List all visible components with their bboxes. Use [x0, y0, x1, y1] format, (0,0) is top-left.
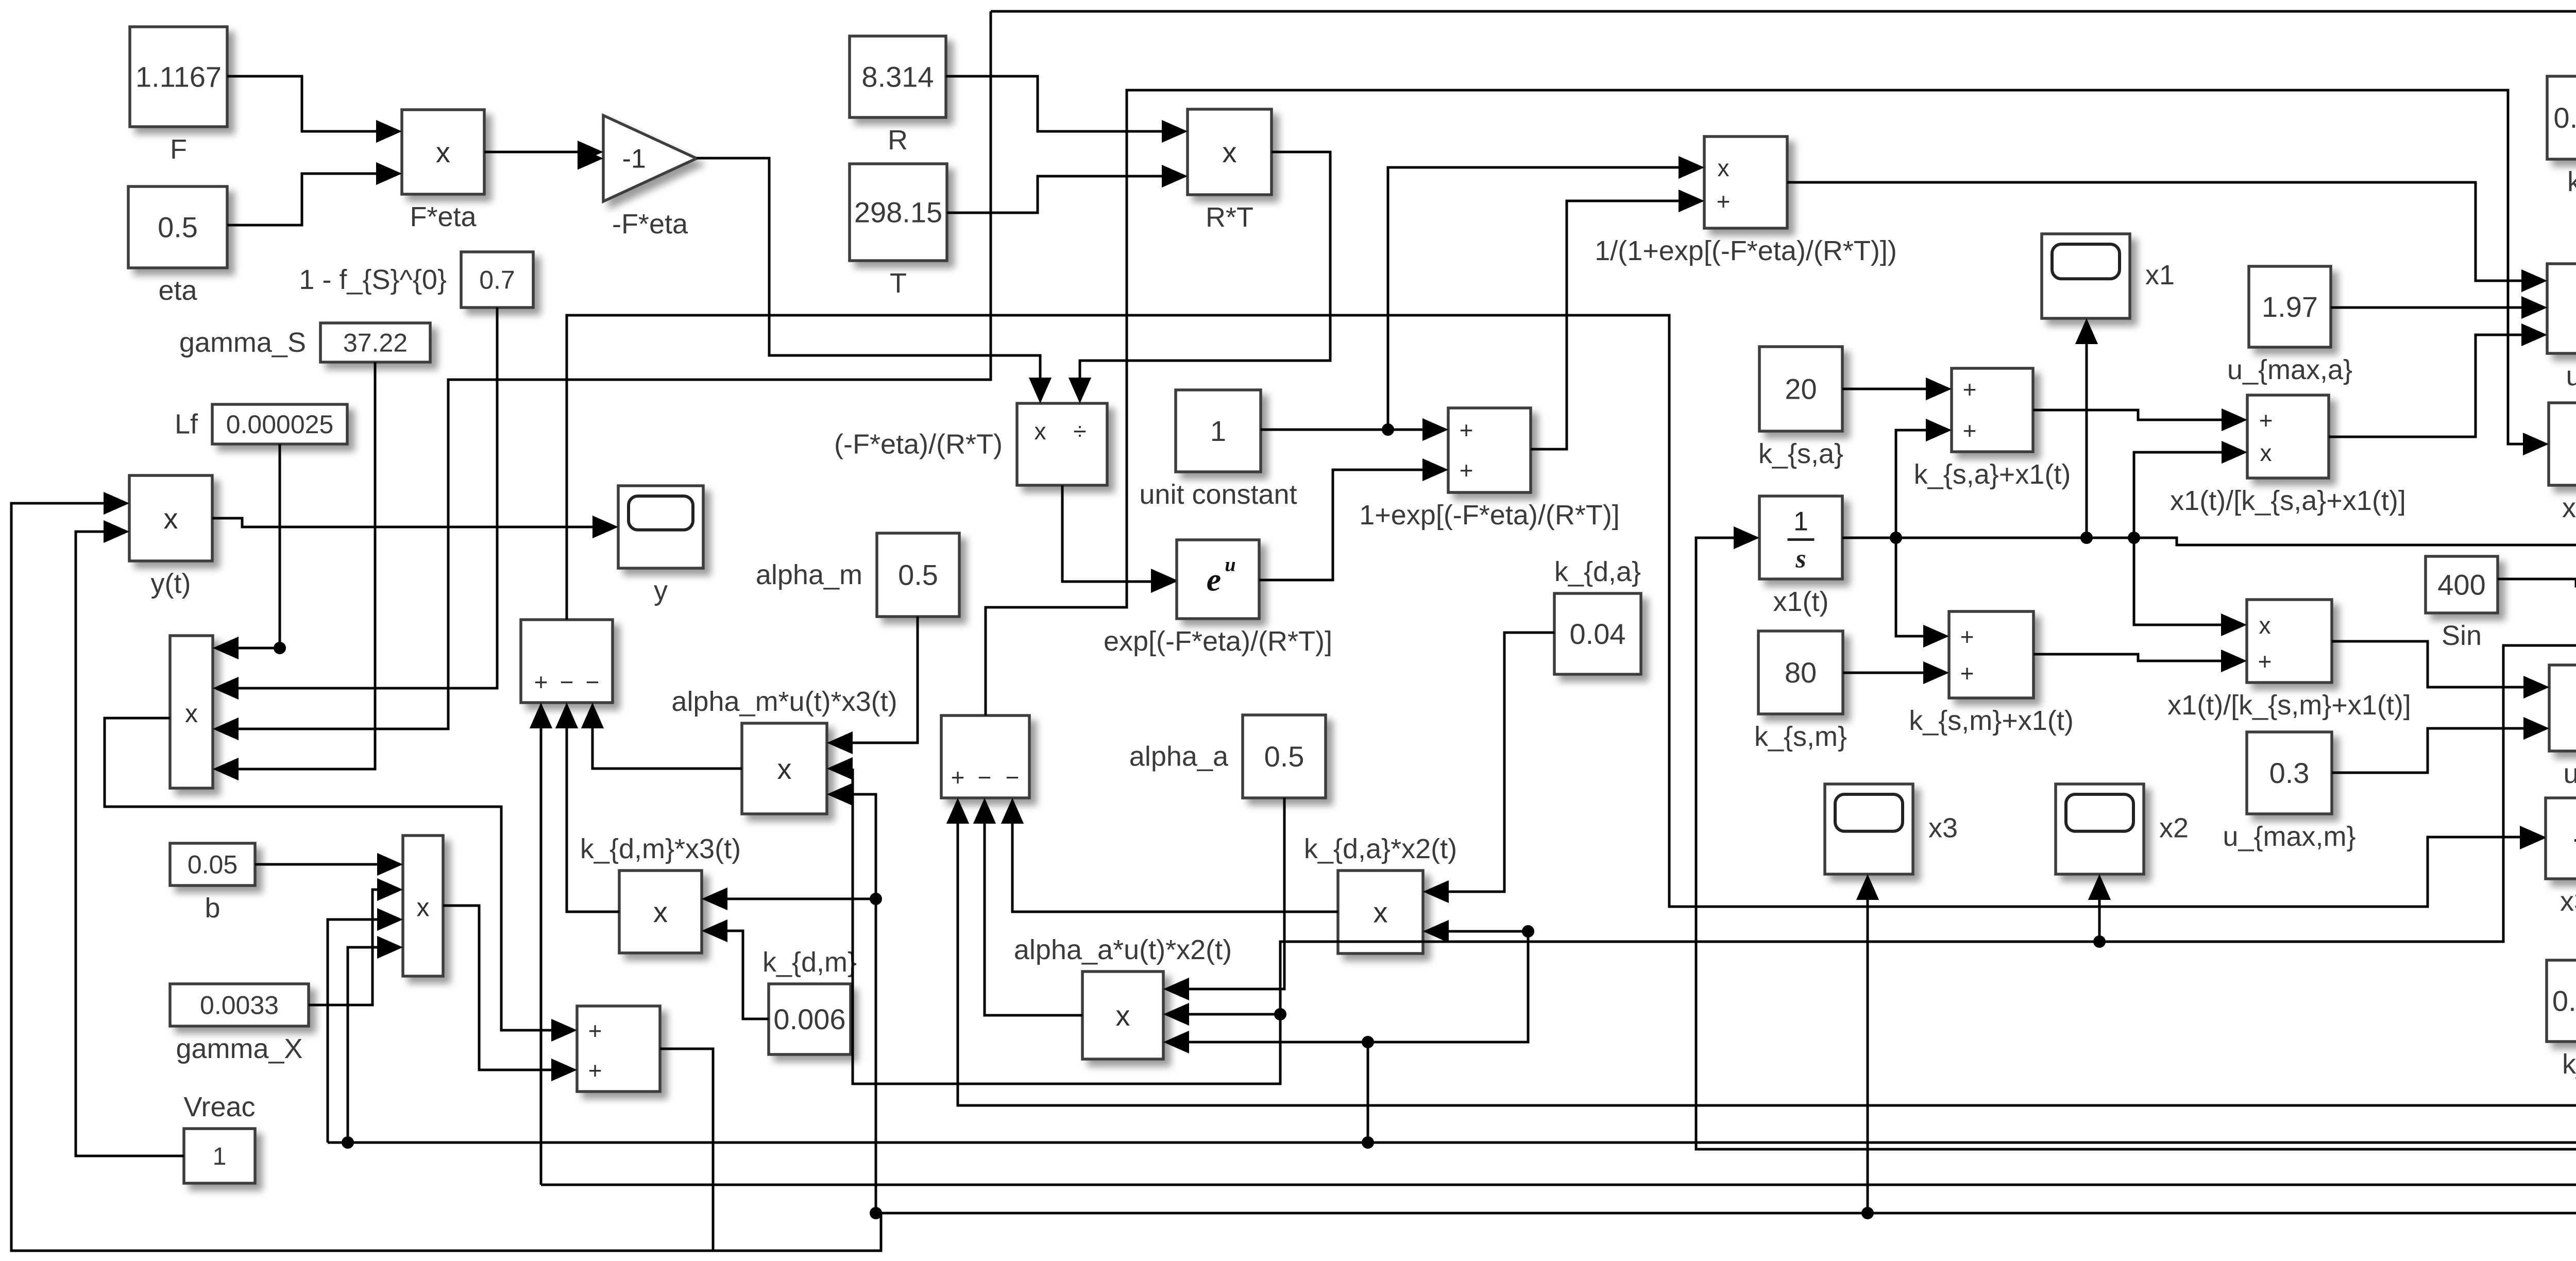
- svg-text:x: x: [1035, 418, 1046, 445]
- wire k_{s,a}+x1 sum to fraction: [2033, 408, 2247, 431]
- wire k_{d,m} 0.006 to product input 2: [702, 919, 769, 1019]
- scope x2: [2056, 784, 2189, 900]
- wire k_{s,a} to sum input 1: [1842, 378, 1952, 400]
- wire F*eta to gain -1: [484, 141, 603, 163]
- wire eta to F*eta input 2: [227, 162, 402, 225]
- constant u_{max,m} = 0.3: [2223, 732, 2355, 852]
- product 1/(1+exp[(-F*eta)/(R*T)]): [1595, 137, 1897, 266]
- svg-text:x: x: [1374, 896, 1388, 929]
- wire F to F*eta input 1: [227, 76, 402, 143]
- wire x1 branch to scope x1: [2075, 318, 2098, 538]
- divide x1(t)/[k_{s,m}+x1(t)]: [2167, 600, 2411, 721]
- wire tall product b output to gamma sum input 2: [443, 906, 577, 1081]
- product R*T: [1162, 109, 1272, 233]
- wire alpha_a to product input 1: [1163, 798, 1284, 1000]
- gain -1 (-F*eta): [578, 115, 697, 240]
- svg-text:1/(1+exp[(-F*eta)/(R*T)]): 1/(1+exp[(-F*eta)/(R*T)]): [1595, 235, 1897, 266]
- svg-text:x: x: [2260, 439, 2272, 466]
- wire e^u to 1+exp sum input 2: [1259, 458, 1448, 580]
- svg-text:-F*eta: -F*eta: [612, 209, 688, 240]
- svg-text:37.22: 37.22: [343, 329, 408, 357]
- svg-text:80: 80: [1785, 656, 1817, 689]
- wire b to tall product input 1: [255, 853, 403, 876]
- svg-text:x: x: [1718, 155, 1730, 181]
- constant 1 (unit constant): [1139, 390, 1297, 510]
- svg-text:Sin: Sin: [2442, 620, 2482, 651]
- wire k_{s,m}+x1 sum to fraction: [2033, 650, 2247, 672]
- svg-text:F: F: [170, 134, 187, 165]
- constant k_{d,m} = 0.006: [762, 947, 857, 1054]
- product u_m: [2523, 665, 2576, 789]
- svg-text:+: +: [1960, 660, 1974, 687]
- svg-text:eta: eta: [158, 275, 197, 306]
- svg-text:k_{d,a}*x2(t): k_{d,a}*x2(t): [1304, 833, 1457, 864]
- product alpha_m*u(t)*x3(t): [671, 686, 897, 814]
- constant gamma_S = 37.22: [179, 323, 430, 362]
- svg-text:y(t): y(t): [151, 568, 191, 599]
- svg-text:F*eta: F*eta: [410, 201, 477, 232]
- svg-text:x3(t): x3(t): [2560, 886, 2576, 917]
- svg-text:+: +: [1460, 417, 1473, 444]
- wire u_a*x2 bus to dx2 sum input 1: [946, 798, 2576, 1105]
- wire dS sum output to x3 integrator: [567, 315, 2546, 907]
- svg-text:−: −: [1006, 764, 1020, 791]
- wire k_{d,a}*x2 output to dx2 sum input 3: [1001, 798, 1338, 912]
- svg-text:1: 1: [213, 1143, 227, 1170]
- scope y: [592, 486, 703, 606]
- svg-text:1.97: 1.97: [2262, 291, 2318, 323]
- constant alpha_a = 0.5: [1129, 715, 1326, 798]
- svg-text:400: 400: [2437, 569, 2485, 601]
- wire segment bottom bus east: [713, 1213, 881, 1251]
- wire x1 branch to fraction a x input: [2134, 441, 2247, 538]
- svg-text:+: +: [588, 1017, 602, 1044]
- svg-text:s: s: [1795, 544, 1806, 574]
- svg-text:x: x: [436, 136, 450, 168]
- constant Lf = 0.000025: [175, 404, 347, 444]
- svg-text:Vreac: Vreac: [183, 1092, 255, 1122]
- svg-text:k_{d,a}: k_{d,a}: [1554, 556, 1641, 587]
- product k_{d,a}*x2(t): [1304, 833, 1457, 953]
- wire x2 branch to k_{d,a} product input 2: [1368, 920, 1534, 1042]
- constant k_{d,a} = 0.04: [1554, 556, 1641, 674]
- constant k_a = 0.667: [2547, 76, 2576, 197]
- wire x1 fraction to u_a input 3: [2329, 323, 2547, 437]
- svg-text:20: 20: [1785, 373, 1817, 405]
- wire x2 branch to alpha_a product input 3: [1163, 1031, 1374, 1143]
- svg-text:0.000025: 0.000025: [226, 410, 334, 439]
- wire gamma sum output to y(t) input 1: [11, 492, 713, 1251]
- svg-text:1 - f_{S}^{0}: 1 - f_{S}^{0}: [299, 264, 447, 295]
- wire x3 branch to k_{d,m} product input 1: [702, 888, 882, 1213]
- constant Sin = 400: [2426, 556, 2498, 651]
- wire Vreac to y(t) input 2: [76, 520, 184, 1156]
- exp block e^u: [1104, 540, 1332, 657]
- svg-text:u_{max,a}: u_{max,a}: [2227, 354, 2352, 385]
- svg-text:+: +: [1960, 623, 1974, 650]
- svg-text:0.3: 0.3: [2269, 757, 2310, 789]
- svg-text:x1(t): x1(t): [1773, 586, 1829, 617]
- constant eta = 0.5: [128, 186, 227, 306]
- wire Sin 400 to minus sum input 2: [2498, 575, 2576, 598]
- wire top bus west to tall product input 3: [213, 11, 991, 740]
- svg-text:x: x: [185, 699, 198, 728]
- svg-text:−: −: [978, 764, 992, 791]
- wire u_{max,m} to u_m input 2: [2332, 717, 2549, 773]
- wire x1 branch to k_{s,m} sum input 1: [1896, 538, 1949, 647]
- svg-text:+: +: [588, 1057, 602, 1084]
- wire gamma_S to tall product input 4: [213, 362, 375, 780]
- sum 1+exp[(-F*eta)/(R*T)]: [1359, 408, 1620, 531]
- svg-text:u_a: u_a: [2566, 361, 2576, 391]
- wire alpha_a*u*x2 output to dx2 sum input 2: [973, 798, 1082, 1015]
- svg-text:+: +: [1963, 417, 1977, 444]
- wire T to R*T input 2: [947, 165, 1188, 213]
- svg-text:x: x: [653, 896, 668, 928]
- constant k_{s,m} = 80: [1754, 631, 1847, 752]
- product F*eta: [376, 110, 484, 232]
- constant b = 0.05: [170, 843, 255, 924]
- svg-text:1.1167: 1.1167: [135, 61, 222, 93]
- wire Lf to tall product input 1: [213, 444, 286, 659]
- svg-text:0.006: 0.006: [773, 1003, 845, 1035]
- wire node unit constant branch to numerator x input: [1388, 156, 1704, 430]
- svg-text:−: −: [586, 669, 600, 695]
- constant k_m = 0.667: [2547, 960, 2576, 1080]
- wire x2 branch to tall product b input 3: [328, 908, 403, 1143]
- svg-text:÷: ÷: [1073, 418, 1086, 445]
- scope x1: [2042, 234, 2175, 344]
- svg-text:1: 1: [1793, 507, 1808, 537]
- wire top feedback bus: [991, 11, 2576, 891]
- svg-text:+: +: [951, 764, 965, 791]
- tall product (b row): [377, 836, 443, 976]
- svg-text:8.314: 8.314: [861, 61, 934, 93]
- svg-text:k_a: k_a: [2567, 166, 2576, 197]
- svg-text:u_m: u_m: [2563, 758, 2576, 789]
- svg-text:x3: x3: [1928, 813, 1958, 844]
- svg-text:k_m: k_m: [2562, 1049, 2576, 1080]
- svg-text:+: +: [1460, 457, 1473, 484]
- wire u(t) branch to alpha_m product input 2: [827, 757, 1280, 1084]
- svg-text:alpha_m: alpha_m: [756, 559, 862, 590]
- svg-text:0.7: 0.7: [479, 266, 515, 295]
- wire u_{max,a} to u_a input 2: [2331, 296, 2547, 319]
- svg-text:alpha_m*u(t)*x3(t): alpha_m*u(t)*x3(t): [671, 686, 897, 717]
- svg-text:x: x: [777, 753, 792, 785]
- wire divide output to e^u input: [1062, 485, 1177, 593]
- wire k_{d,a} 0.04 to product input 1: [1423, 633, 1554, 903]
- sum + - - (dS sum): [521, 620, 613, 728]
- wire 0.7 to tall product input 2: [213, 308, 497, 700]
- svg-text:u: u: [1225, 554, 1235, 576]
- integrator x1(t): [1734, 496, 1842, 617]
- svg-text:R*T: R*T: [1206, 202, 1253, 233]
- wire 1+exp sum to divide + input: [1531, 190, 1704, 449]
- svg-text:0.04: 0.04: [1570, 618, 1626, 650]
- svg-text:x: x: [1223, 136, 1237, 168]
- svg-text:k_{d,m}*x3(t): k_{d,m}*x3(t): [580, 833, 741, 864]
- constant F = 1.1167: [130, 27, 227, 165]
- wire 1/(1+exp) to u_a input 1: [1787, 182, 2547, 292]
- wire x3 bus west: [870, 1207, 2576, 1219]
- integrator x3(t): [2520, 798, 2576, 917]
- svg-text:k_{s,a}: k_{s,a}: [1758, 438, 1843, 469]
- svg-text:k_{s,m}: k_{s,m}: [1754, 721, 1847, 752]
- constant R = 8.314: [850, 36, 946, 156]
- wire u(t) branch to scope x2: [2088, 874, 2111, 942]
- svg-text:-1: -1: [622, 144, 646, 174]
- wire k_{s,m} to sum input 2: [1843, 661, 1949, 684]
- wire -F*eta to divide x input: [697, 158, 1052, 403]
- divide (-F*eta)/(R*T): [834, 378, 1107, 485]
- wire R*T to divide ÷ input: [1069, 152, 1330, 403]
- svg-text:gamma_S: gamma_S: [179, 327, 306, 358]
- constant gamma_X = 0.0033: [170, 984, 309, 1064]
- wire unit constant to 1+exp sum input 1: [1261, 418, 1448, 441]
- wire x1(t) output line: [1842, 532, 2140, 544]
- wire x2 feedback bus west: [328, 1136, 2576, 1149]
- constant k_{s,a} = 20: [1758, 347, 1843, 469]
- svg-text:+: +: [534, 669, 548, 695]
- svg-text:0.5: 0.5: [898, 559, 938, 591]
- constant T = 298.15: [850, 164, 947, 299]
- svg-text:0.667: 0.667: [2553, 101, 2576, 134]
- wire x1 branch to fraction m x input: [2134, 538, 2247, 636]
- wire y(t) to scope y: [212, 516, 618, 538]
- svg-text:1: 1: [1210, 415, 1226, 447]
- svg-text:0.5: 0.5: [1264, 740, 1304, 773]
- sum + + (gamma row): [551, 1006, 660, 1092]
- sum + - - (dx2 sum): [941, 715, 1029, 824]
- svg-text:x2(t): x2(t): [2562, 492, 2576, 523]
- svg-text:0.5: 0.5: [158, 211, 198, 244]
- svg-text:−: −: [560, 669, 574, 695]
- wire fraction m to u_m input 1: [2332, 641, 2549, 698]
- svg-text:u_{max,m}: u_{max,m}: [2223, 821, 2355, 852]
- svg-text:+: +: [2259, 407, 2273, 434]
- product y(t): [104, 475, 212, 599]
- svg-text:x: x: [164, 502, 178, 535]
- svg-text:alpha_a*u(t)*x2(t): alpha_a*u(t)*x2(t): [1014, 934, 1232, 965]
- wire x1 branch to Sin minus sum input: [2134, 534, 2576, 556]
- svg-text:+: +: [1963, 376, 1977, 403]
- wire gamma_X to tall product input 2: [309, 878, 403, 1005]
- svg-text:x: x: [2259, 612, 2271, 639]
- svg-text:Lf: Lf: [175, 409, 198, 440]
- svg-text:x: x: [417, 893, 430, 922]
- wire x3 branch to alpha_m product input 3: [827, 783, 876, 899]
- wire bus branch to tall product b input 4: [342, 936, 403, 1149]
- wire x3 branch to scope x3: [1856, 874, 1879, 1213]
- wire k_{d,m}*x3 output to dS sum input 2: [555, 703, 619, 912]
- svg-text:alpha_a: alpha_a: [1129, 741, 1229, 772]
- svg-text:298.15: 298.15: [854, 196, 942, 229]
- wire final sum output to x1 integrator: [1696, 526, 2576, 1149]
- svg-text:x1(t)/[k_{s,m}+x1(t)]: x1(t)/[k_{s,m}+x1(t)]: [2167, 690, 2411, 721]
- svg-text:x1: x1: [2145, 260, 2175, 291]
- svg-text:x2: x2: [2159, 813, 2189, 844]
- svg-text:+: +: [1717, 188, 1731, 215]
- svg-text:k_{d,m}: k_{d,m}: [762, 947, 857, 978]
- product k_{d,m}*x3(t): [580, 833, 741, 953]
- svg-text:+: +: [2258, 648, 2272, 675]
- svg-text:x: x: [1116, 999, 1130, 1032]
- integrator x2(t): [2523, 403, 2576, 523]
- wire u(t) feedback down and west: [1163, 387, 2576, 1026]
- svg-text:0.0033: 0.0033: [200, 991, 279, 1020]
- constant alpha_m = 0.5: [756, 533, 959, 617]
- svg-text:R: R: [888, 125, 908, 156]
- scope x3: [1825, 784, 1958, 900]
- svg-text:x1(t)/[k_{s,a}+x1(t)]: x1(t)/[k_{s,a}+x1(t)]: [2170, 485, 2406, 516]
- wire alpha_m to product input 1: [827, 617, 918, 754]
- tall product (y row): [170, 636, 239, 788]
- constant 0.7 (1 - f_{S}^{0}): [299, 252, 533, 308]
- svg-text:0.667: 0.667: [2552, 985, 2576, 1017]
- product u_a: [2521, 264, 2576, 391]
- wire alpha_m*u*x3 output to dS sum input 3: [581, 703, 742, 769]
- svg-text:b: b: [205, 893, 220, 924]
- svg-text:T: T: [890, 268, 907, 299]
- wire bus branch to dS sum input 1: [530, 703, 552, 1185]
- wire x1 branch to k_{s,a} sum input 2: [1896, 419, 1952, 538]
- wire tall product y output to gamma sum input 1: [105, 718, 577, 1042]
- svg-text:(-F*eta)/(R*T): (-F*eta)/(R*T): [834, 429, 1003, 460]
- svg-text:e: e: [1207, 561, 1221, 598]
- svg-text:unit constant: unit constant: [1139, 479, 1297, 510]
- wire u_m*x3 bus west: [541, 1184, 2576, 1186]
- wire R to R*T input 1: [946, 76, 1188, 143]
- constant Vreac = 1: [183, 1092, 255, 1183]
- wire dx2 sum output to x2 integrator: [986, 90, 2549, 715]
- divide x1(t)/[k_{s,a}+x1(t)]: [2170, 395, 2406, 516]
- svg-text:1+exp[(-F*eta)/(R*T)]: 1+exp[(-F*eta)/(R*T)]: [1359, 500, 1620, 531]
- sum k_{s,a}+x1(t): [1914, 368, 2071, 490]
- svg-text:0.05: 0.05: [188, 850, 238, 879]
- svg-text:k_{s,a}+x1(t): k_{s,a}+x1(t): [1914, 459, 2071, 490]
- svg-text:k_{s,m}+x1(t): k_{s,m}+x1(t): [1909, 705, 2074, 736]
- svg-text:gamma_X: gamma_X: [176, 1033, 302, 1064]
- constant u_{max,a} = 1.97: [2227, 266, 2352, 385]
- svg-text:exp[(-F*eta)/(R*T)]: exp[(-F*eta)/(R*T)]: [1104, 626, 1332, 657]
- sum k_{s,m}+x1(t): [1909, 611, 2074, 736]
- product alpha_a*u(t)*x2(t): [1014, 934, 1232, 1059]
- svg-text:y: y: [654, 575, 668, 606]
